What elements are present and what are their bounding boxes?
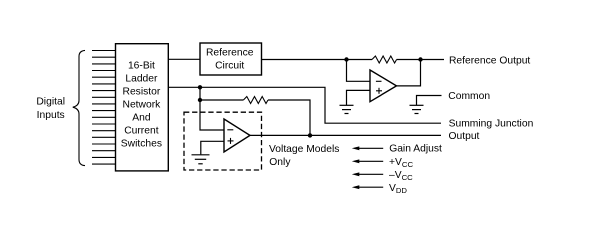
node label: Digital Inputs bbox=[36, 97, 65, 122]
brace for digital inputs bbox=[73, 50, 85, 165]
svg-text:Summing Junction: Summing Junction bbox=[449, 119, 534, 130]
junction dot (right of R1) bbox=[418, 57, 422, 61]
svg-text:Current: Current bbox=[124, 125, 158, 136]
op-amp U3 (voltage model) bbox=[224, 119, 250, 152]
svg-text:And: And bbox=[132, 112, 151, 123]
junction dot A (on summing wire) bbox=[198, 85, 202, 89]
wire: U3 output to Output terminal bbox=[250, 134, 441, 136]
svg-text:Digital: Digital bbox=[36, 97, 65, 108]
wire: noninverting input of U2 to ground bbox=[347, 90, 371, 105]
wire: resistor to reference output bbox=[397, 59, 444, 61]
svg-text:Ladder: Ladder bbox=[125, 73, 158, 84]
resistor R2 bbox=[243, 97, 268, 104]
svg-text:Only: Only bbox=[269, 157, 291, 168]
label: Voltage Models Only bbox=[269, 144, 339, 168]
resistor R1 (reference feedback) bbox=[372, 56, 397, 63]
wire: reference circuit output to resistor bbox=[262, 59, 373, 61]
wire: noninverting input of U3 to ground bbox=[201, 141, 224, 154]
arrow: -Vcc bbox=[352, 172, 383, 176]
ground (common) bbox=[410, 105, 424, 113]
wire: inverting input of U2 bbox=[347, 60, 371, 82]
block: Reference Circuit bbox=[200, 43, 262, 75]
wire: R2 down to output node bbox=[268, 100, 310, 135]
svg-text:Circuit: Circuit bbox=[215, 61, 244, 72]
arrow: Gain Adjust bbox=[352, 146, 383, 150]
junction dot (left of R1) bbox=[344, 57, 348, 61]
junction dot B (feedback tap) bbox=[198, 98, 202, 102]
svg-text:Voltage Models: Voltage Models bbox=[269, 144, 339, 155]
block: 16-bit ladder resistor network box bbox=[116, 44, 169, 171]
junction dot C (on output line) bbox=[308, 133, 312, 137]
wire: 18 digital input lines bbox=[92, 51, 116, 165]
wire: summing junction net bbox=[168, 87, 441, 123]
op-amp U2 (reference buffer) bbox=[370, 70, 397, 102]
wire + resistor R2 (voltage model feedback) bbox=[200, 99, 243, 101]
svg-text:Network: Network bbox=[123, 99, 162, 110]
wire: vertical to inverting input of U3 bbox=[200, 87, 224, 130]
arrow: +Vcc bbox=[352, 159, 383, 163]
svg-text:Reference Output: Reference Output bbox=[449, 55, 530, 66]
ground (U3 noninverting, inside dashed box) bbox=[192, 155, 210, 164]
ground (U2 noninverting) bbox=[340, 105, 354, 113]
arrow: Vdd bbox=[352, 185, 383, 189]
wire: U2 output up to reference output line bbox=[397, 60, 421, 86]
svg-text:Gain Adjust: Gain Adjust bbox=[389, 144, 442, 155]
svg-text:Resistor: Resistor bbox=[123, 86, 161, 97]
wire: common stub bbox=[417, 96, 442, 106]
wire: ladder box to reference circuit bbox=[168, 58, 200, 60]
svg-text:Switches: Switches bbox=[121, 138, 162, 149]
svg-text:Common: Common bbox=[448, 91, 490, 102]
svg-text:Inputs: Inputs bbox=[37, 110, 65, 121]
svg-text:Reference: Reference bbox=[206, 48, 254, 59]
svg-text:Output: Output bbox=[449, 131, 480, 142]
svg-text:16-Bit: 16-Bit bbox=[128, 60, 155, 71]
dashed box: voltage model option bbox=[184, 112, 262, 170]
